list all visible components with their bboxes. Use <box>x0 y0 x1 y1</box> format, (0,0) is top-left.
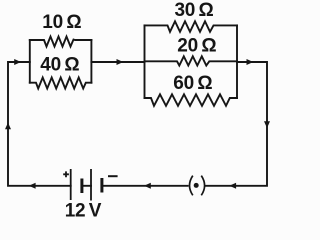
svg-text:30 Ω: 30 Ω <box>175 0 214 21</box>
svg-text:10 Ω: 10 Ω <box>42 12 81 33</box>
svg-text:40 Ω: 40 Ω <box>40 55 79 76</box>
svg-text:12 V: 12 V <box>65 201 102 221</box>
svg-text:60 Ω: 60 Ω <box>173 73 212 94</box>
svg-text:20 Ω: 20 Ω <box>177 36 216 57</box>
